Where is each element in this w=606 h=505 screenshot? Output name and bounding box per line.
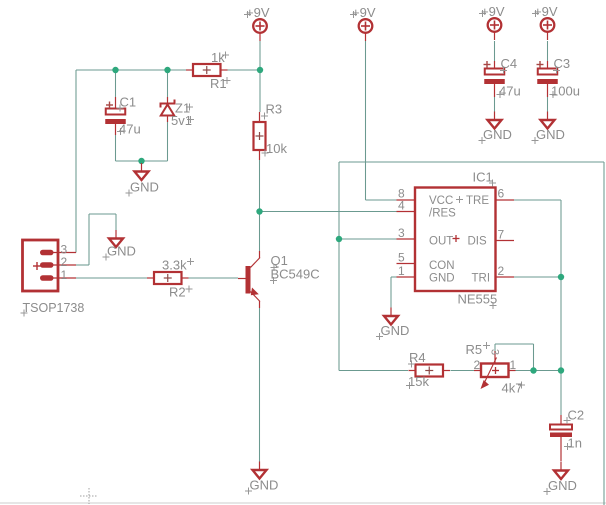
- svg-text:OUT: OUT: [429, 236, 453, 248]
- resistor R2 3.3k: [147, 258, 194, 300]
- wire net GND C1-Z1 bottom horizontal: [116, 160, 168, 162]
- wire net N4: R5 wiper up and over: [495, 344, 534, 371]
- svg-text:4k7: 4k7: [502, 381, 523, 396]
- svg-text:3.3k: 3.3k: [162, 258, 187, 273]
- transistor Q1 BC549C (NPN): [238, 251, 320, 308]
- wire net C3 top: [547, 41, 549, 61]
- junction node GND C1-Z1: [138, 158, 144, 164]
- wire net VCC: +9V P2 down to IC pin8: [366, 41, 397, 200]
- svg-text:1: 1: [398, 264, 405, 278]
- resistor R1 1k: [186, 50, 231, 91]
- svg-text:TRE: TRE: [466, 195, 489, 207]
- svg-text:4: 4: [398, 199, 405, 213]
- capacitor C1 47u (polarized): [105, 95, 140, 137]
- svg-text:10k: 10k: [266, 141, 287, 156]
- wire net GND from TSOP pin2: [76, 214, 116, 265]
- svg-text:GND: GND: [107, 244, 136, 259]
- supply symbol +9V P1: [244, 5, 270, 41]
- svg-text:CON: CON: [429, 260, 455, 272]
- ground GND under C2: [544, 462, 577, 495]
- svg-text:+9V: +9V: [352, 5, 376, 20]
- wire net N2: R3 bottom to node: [259, 160, 261, 212]
- svg-text:R1: R1: [210, 76, 227, 91]
- svg-text:2: 2: [474, 358, 481, 372]
- svg-text:GND: GND: [483, 127, 512, 142]
- junction node VCC/R1/R3: [257, 67, 263, 73]
- svg-text:6: 6: [498, 187, 505, 201]
- ground GND at IC pin1: [376, 308, 409, 341]
- svg-text:47u: 47u: [499, 84, 521, 99]
- wire net GND below Z1: [167, 122, 169, 161]
- wire net VCC top horizontal to R1 right: [228, 69, 261, 71]
- wire net N1 horizontal left of R1: [76, 69, 186, 71]
- svg-text:1: 1: [61, 268, 68, 282]
- svg-text:C4: C4: [501, 56, 518, 71]
- wire net OUT: IC pin3 to node: [339, 238, 397, 240]
- wire net GND: Q1 emitter down: [259, 308, 261, 462]
- svg-text:DIS: DIS: [468, 236, 488, 248]
- resistor R3 10k (vertical): [254, 102, 288, 161]
- svg-text:TSOP1738: TSOP1738: [23, 301, 85, 315]
- capacitor C3 100u (polarized): [537, 56, 580, 99]
- wire net N1 vertical down to TSOP pin3: [75, 70, 77, 253]
- svg-text:2: 2: [61, 255, 68, 269]
- svg-text:NE555: NE555: [458, 292, 498, 307]
- svg-text:5: 5: [398, 251, 405, 265]
- svg-text:+9V: +9V: [534, 4, 558, 19]
- wire net N5: IC pin6 TRE right: [514, 200, 561, 277]
- wire net N3: TSOP pin1 to R2: [76, 277, 147, 279]
- svg-text:1k: 1k: [211, 50, 225, 65]
- svg-text:47u: 47u: [119, 122, 141, 137]
- svg-text:1n: 1n: [568, 436, 582, 451]
- svg-text:C1: C1: [120, 95, 137, 110]
- svg-text:+9V: +9V: [481, 4, 505, 19]
- svg-text:GND: GND: [130, 180, 159, 195]
- svg-text:GND: GND: [250, 478, 279, 493]
- svg-text:GND: GND: [548, 478, 577, 493]
- svg-text:IC1: IC1: [473, 170, 493, 185]
- wire net C3 bottom to GND: [547, 97, 549, 112]
- wire net N4: R5 pin1 to C2 node: [516, 370, 562, 372]
- svg-text:BC549C: BC549C: [271, 267, 320, 282]
- ground GND near TSOP pin2: [103, 230, 136, 261]
- svg-text:R4: R4: [409, 350, 426, 365]
- svg-text:15k: 15k: [408, 374, 429, 389]
- wire net C4 top: [494, 41, 496, 61]
- svg-text:+9V: +9V: [246, 5, 270, 20]
- svg-text:R5: R5: [466, 342, 483, 357]
- wire net OUT: right edge down: [603, 162, 605, 505]
- wire net N1 branch to Z1 top: [167, 70, 169, 97]
- wire net N2: node to IC pin4: [260, 211, 397, 213]
- junction node N4 above C2: [558, 367, 564, 373]
- svg-text:/RES: /RES: [429, 208, 456, 220]
- wire net N2: node down to Q1 collector: [259, 212, 261, 252]
- svg-text:C3: C3: [554, 56, 571, 71]
- capacitor C2 1n: [550, 408, 584, 462]
- ground GND at Q1 emitter: [245, 462, 278, 495]
- junction node TRE/TRI join: [558, 274, 564, 280]
- ground GND under C1/Z1: [126, 163, 159, 197]
- wire net OUT: node up: [338, 162, 340, 239]
- wire net C4 bottom to GND: [494, 97, 496, 112]
- junction node OUT at pin3: [336, 236, 342, 242]
- wire net N5: IC pin2 TRI right: [514, 276, 561, 278]
- junction node wiper join: [530, 367, 536, 373]
- op-amp/timer IC1 NE555: [397, 170, 515, 310]
- junction node N2 R3/pin4/collector: [256, 208, 262, 214]
- svg-text:3: 3: [489, 349, 501, 355]
- svg-text:GND: GND: [429, 273, 455, 285]
- svg-text:2: 2: [498, 264, 505, 278]
- connector X1 TSOP1738: [21, 240, 85, 317]
- supply symbol +9V P4: [532, 4, 558, 40]
- svg-text:R3: R3: [266, 102, 283, 117]
- wire net VCC top: +9V P1 down to R3: [259, 41, 261, 112]
- svg-text:GND: GND: [536, 127, 565, 142]
- wire net N3: R2 to Q1 base: [189, 277, 239, 279]
- wire net GND below C1: [115, 135, 117, 161]
- resistor R4 15k: [406, 350, 450, 389]
- wire net between R4 and R5: [451, 370, 475, 372]
- capacitor C4 47u (polarized): [484, 56, 521, 99]
- svg-text:1: 1: [510, 358, 517, 372]
- supply symbol +9V P2: [350, 5, 376, 41]
- ground GND under C4: [479, 112, 512, 145]
- wire net N1 branch to C1 top: [115, 70, 117, 97]
- trimmer resistor R5 4k7: [466, 342, 526, 396]
- zener diode Z1 5v1: [161, 97, 195, 128]
- svg-text:100u: 100u: [551, 84, 580, 99]
- junction node A (Z1 tap): [164, 67, 170, 73]
- wire net GND from IC pin1: [391, 277, 397, 308]
- svg-text:C2: C2: [568, 408, 585, 423]
- svg-text:7: 7: [498, 228, 505, 242]
- supply symbol +9V P3: [479, 4, 505, 40]
- svg-text:3: 3: [398, 226, 405, 240]
- svg-text:VCC: VCC: [429, 195, 453, 207]
- svg-text:GND: GND: [381, 323, 410, 338]
- wire net OUT: long horizontal: [339, 161, 604, 163]
- wire net N5: down to C2: [560, 277, 562, 415]
- junction node A (R1/C1 net): [112, 67, 118, 73]
- svg-text:R2: R2: [169, 285, 186, 300]
- wire net OUT: node down to R4: [339, 239, 408, 371]
- ground GND under C3: [532, 112, 565, 145]
- svg-text:5v1: 5v1: [171, 113, 192, 128]
- svg-text:TRI: TRI: [472, 273, 491, 285]
